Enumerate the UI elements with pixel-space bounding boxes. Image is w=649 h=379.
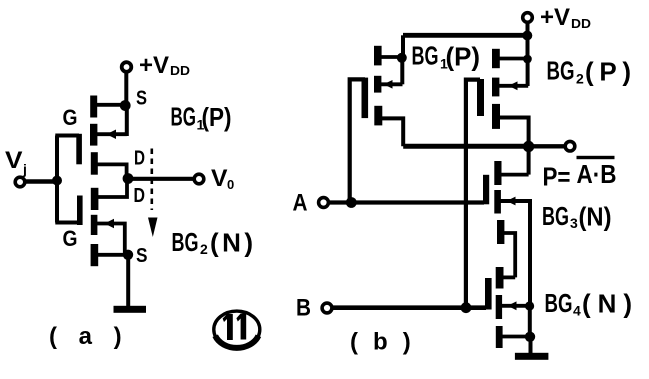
svg-text:V: V [5,147,23,174]
transistor BG2b source bar [492,49,500,68]
svg-text:P=: P= [543,162,571,192]
transistor BG2 drain bar [91,188,99,210]
label BG4(N) (b) [545,288,633,319]
svg-text:(P): (P) [585,57,631,87]
terminal P output circle [565,141,575,151]
node BG4 source junction [525,332,535,342]
transistor BG3 substrate bar [494,190,501,214]
svg-text:(P): (P) [446,42,481,72]
transistor BG3 drain bar [494,161,501,185]
transistor BG1 drain bar [91,152,98,175]
arrow current down [148,218,158,238]
wire A line [330,200,485,204]
node S junction (a) [120,100,131,111]
svg-text:2: 2 [576,71,584,87]
svg-text:BG: BG [172,227,199,257]
svg-text:S: S [136,245,148,267]
svg-text:(N): (N) [210,228,253,258]
wire output to Vo [128,177,194,181]
svg-text:(P): (P) [202,102,232,132]
terminal +VDD circle (b) [523,13,533,23]
node source junction (a) [123,250,133,260]
wire VDD top to BG1 branch [403,33,528,38]
wire BG2b source lead [499,57,527,61]
wire BG2 substrate lead [97,224,125,256]
dashed current line [151,149,154,211]
svg-text:2: 2 [200,241,208,257]
label BG2(N) (a) [172,227,254,258]
label P = A.B with overline [543,156,617,192]
transistor BG1b drain bar [374,106,382,126]
wire substrate node down to source node [528,306,532,337]
terminal Vo circle [194,174,204,184]
wire BG2b substrate lead [499,84,528,88]
ground (a) [114,306,147,313]
wire output node to P terminal [529,144,565,148]
svg-text:S: S [136,88,147,110]
node output junction (a) [123,173,134,184]
svg-text:( b ): ( b ) [350,329,415,356]
node BG2b source junction [523,55,532,64]
node VDD junction (b) [522,31,532,41]
wire BG4 drain lead [503,275,515,279]
arrow BG1b substrate [384,80,393,89]
transistor BG2b drain bar [492,104,500,129]
arrow BG3 substrate [507,197,516,206]
svg-text:A: A [293,190,308,217]
wire BG2b gate [466,80,480,308]
svg-text:D: D [134,185,146,207]
gate bar BG1 (a) [76,134,82,165]
svg-text:+V: +V [540,4,570,31]
wire BG2b drain lead down to output node [500,118,529,145]
svg-text:+V: +V [139,52,169,79]
label BG1(P) (b) [412,41,481,72]
figure number circle 11 [214,311,260,348]
svg-text:3: 3 [570,215,578,231]
wire BG1 drain lead to output node [98,164,127,176]
node gate junction (a) [52,176,62,186]
node B junction [461,302,472,313]
terminal +VDD circle (a) [122,62,132,72]
ground (b) [515,353,549,360]
arrow BG4 substrate [508,301,517,310]
wire BG2 drain lead to output node [98,181,127,197]
svg-text:BG: BG [171,102,197,132]
wire VDD rail (b) [526,23,530,59]
transistor BG2b substrate bar [492,78,499,97]
node output P junction [523,141,534,152]
transistor BG2 source bar [91,244,99,266]
wire BG2 source lead [98,253,128,257]
wire BG1 substrate lead [97,132,127,136]
gate bar BG3 [483,175,489,205]
wire BG4 substrate lead [502,304,530,308]
wire BG1b drain lead down to output line [382,118,403,146]
wire BG3 drain lead [501,173,529,177]
wire source to ground [126,255,130,306]
svg-text:BG: BG [547,56,575,86]
wire output line from BG1b drain [403,144,528,149]
svg-text:BG: BG [545,288,573,318]
label Vo [211,165,234,192]
terminal Vi input circle [15,177,25,187]
gate bar BG4 [485,278,492,310]
svg-text:( a ): ( a ) [49,323,129,350]
wire S node down to substrate join [125,106,129,137]
wire B line [333,305,486,310]
wire Vi to gate node [26,179,58,184]
arrow BG2 substrate [105,219,115,228]
svg-text:j: j [22,161,27,177]
svg-text:B: B [296,295,311,322]
svg-text:(N): (N) [579,202,612,232]
transistor BG4 source bar [496,326,503,348]
wire source node to ground (b) [529,337,533,354]
transistor BG1b substrate bar [374,76,381,93]
svg-text:A·B: A·B [577,159,617,189]
transistor BG4 substrate bar [496,295,502,319]
wire P rail down to BG3 drain [527,147,531,175]
gate bar BG2b [477,79,484,116]
label BG2(P) (b) [547,56,632,87]
arrow BG2b substrate [509,81,518,90]
wire BG1 source lead [97,103,126,107]
transistor BG1 source bar [90,96,97,118]
wire BG1b source lead [381,55,401,59]
wire BG3 substrate lead down to bottom node [501,199,532,306]
wire BG4 source lead [503,335,531,339]
terminal B input circle [322,303,332,313]
label BG3(N) (b) [542,201,612,232]
arrow BG1 substrate [107,130,117,140]
svg-text:G: G [63,226,78,251]
label Vj [5,147,27,177]
node BG3-BG4 substrate junction [525,301,534,310]
wire BG1b substrate lead [381,82,403,86]
transistor BG4 drain bar [496,267,504,289]
svg-text:G: G [63,105,78,130]
label +VDD (a) [139,52,190,79]
svg-text:BG: BG [542,201,569,231]
transistor BG3 source bar [497,220,504,244]
wire BG2b source-substrate rail [526,59,530,86]
wire VDD down to S node [124,72,128,106]
svg-text:DD: DD [571,16,591,31]
label BG1(P) (a) [171,102,232,133]
svg-text:4: 4 [573,303,581,319]
svg-text:0: 0 [227,177,234,192]
label +VDD (b) [540,4,591,31]
wire BG1b gate [350,79,365,202]
wire BG3 source lead down to BG4 drain [504,233,515,277]
wire BG1b source-substrate rail [400,58,404,84]
svg-text:(N): (N) [582,289,632,319]
svg-text:BG: BG [412,41,439,71]
transistor BG1b source bar [374,46,382,66]
transistor BG1 substrate bar [90,124,97,146]
svg-text:D: D [134,148,145,170]
gate bar BG2 (a) [77,196,83,226]
wire gate node down to BG2 gate [55,181,80,223]
gate bar BG1b [362,78,369,119]
transistor BG2 substrate bar [91,215,98,235]
node A junction [346,197,357,208]
terminal A input circle [319,198,329,208]
wire gate node up to BG1 gate [55,136,79,181]
node BG1 source junction (b) [397,53,407,63]
wire branch down to BG1 source node [401,35,405,58]
svg-text:V: V [211,165,228,192]
svg-text:DD: DD [170,63,190,78]
